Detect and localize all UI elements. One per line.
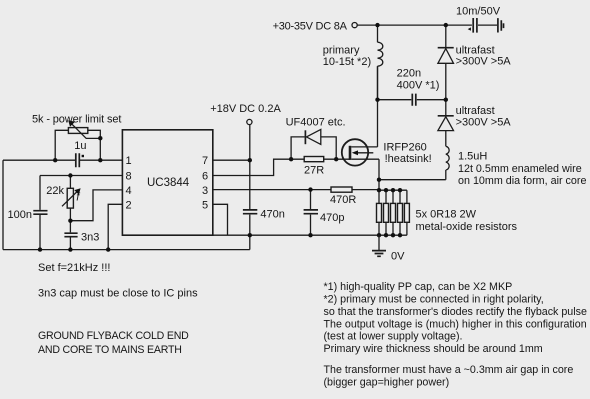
svg-text:3: 3 <box>202 185 208 197</box>
svg-text:+18V DC 0.2A: +18V DC 0.2A <box>210 103 281 115</box>
svg-text:primary: primary <box>323 44 360 56</box>
svg-text:metal-oxide resistors: metal-oxide resistors <box>416 221 518 233</box>
svg-text:2: 2 <box>126 199 132 211</box>
svg-text:8: 8 <box>126 171 132 183</box>
svg-text:The transformer must have a ~0: The transformer must have a ~0.3mm air g… <box>324 364 574 376</box>
svg-text:12t 0.5mm enameled wire: 12t 0.5mm enameled wire <box>458 163 582 175</box>
svg-text:5k - power limit set: 5k - power limit set <box>32 114 121 126</box>
svg-text:(test at lower supply voltage): (test at lower supply voltage). <box>324 331 463 343</box>
svg-text:!heatsink!: !heatsink! <box>385 153 432 165</box>
svg-text:0V: 0V <box>391 250 405 262</box>
svg-text:ultrafast: ultrafast <box>456 105 495 117</box>
svg-text:+30-35V DC 8A: +30-35V DC 8A <box>273 20 348 32</box>
svg-text:1: 1 <box>126 155 132 167</box>
svg-text:27R: 27R <box>304 164 324 176</box>
svg-text:GROUND FLYBACK COLD END: GROUND FLYBACK COLD END <box>38 330 189 342</box>
svg-text:1u: 1u <box>74 140 86 152</box>
svg-text:10m/50V: 10m/50V <box>456 5 501 17</box>
svg-text:1.5uH: 1.5uH <box>458 151 487 163</box>
svg-text:(bigger gap=higher power): (bigger gap=higher power) <box>324 377 450 389</box>
svg-text:>300V >5A: >300V >5A <box>456 55 512 67</box>
svg-text:The output voltage is (much) h: The output voltage is (much) higher in t… <box>324 318 587 330</box>
svg-text:5x 0R18 2W: 5x 0R18 2W <box>416 209 477 221</box>
svg-text:on 10mm dia form, air core: on 10mm dia form, air core <box>458 175 586 187</box>
svg-text:100n: 100n <box>8 209 32 221</box>
svg-text:4: 4 <box>126 185 132 197</box>
svg-text:220n: 220n <box>397 68 421 80</box>
svg-text:so that the transformer's diod: so that the transformer's diodes rectify… <box>324 306 587 318</box>
svg-text:IRFP260: IRFP260 <box>383 141 426 153</box>
svg-text:7: 7 <box>202 155 208 167</box>
svg-text:6: 6 <box>202 171 208 183</box>
svg-text:470R: 470R <box>330 194 356 206</box>
svg-text:10-15t *2): 10-15t *2) <box>323 56 371 68</box>
svg-text:470n: 470n <box>260 209 284 221</box>
svg-text:*2) primary must be connected: *2) primary must be connected in right p… <box>324 293 544 305</box>
svg-text:AND CORE TO MAINS EARTH: AND CORE TO MAINS EARTH <box>38 344 182 356</box>
svg-text:3n3: 3n3 <box>81 231 99 243</box>
svg-text:UF4007 etc.: UF4007 etc. <box>286 116 346 128</box>
svg-text:470p: 470p <box>320 212 344 224</box>
svg-text:Primary wire thickness should: Primary wire thickness should be around … <box>324 343 543 355</box>
svg-text:400V *1): 400V *1) <box>397 80 440 92</box>
svg-text:>300V >5A: >300V >5A <box>456 117 512 129</box>
svg-text:22k: 22k <box>46 185 64 197</box>
svg-text:*1) high-quality PP cap, can b: *1) high-quality PP cap, can be X2 MKP <box>324 281 513 293</box>
svg-text:Set f=21kHz !!!: Set f=21kHz !!! <box>38 262 110 274</box>
svg-text:3n3 cap must be close to IC pi: 3n3 cap must be close to IC pins <box>38 287 198 299</box>
svg-text:UC3844: UC3844 <box>147 177 190 189</box>
svg-text:5: 5 <box>202 199 208 211</box>
